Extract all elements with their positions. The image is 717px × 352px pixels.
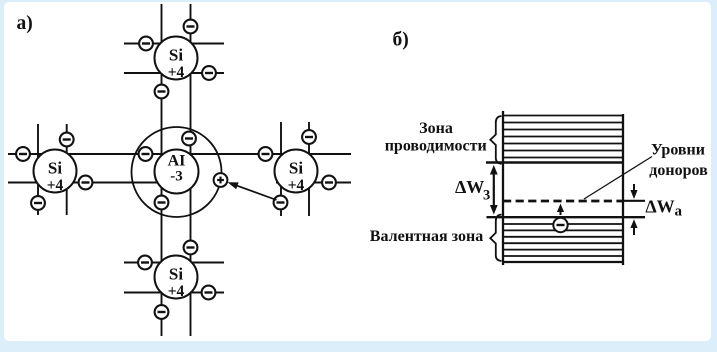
svg-text:3: 3 — [483, 188, 490, 204]
electron bottom Si right-arm — [202, 286, 216, 300]
atom Si left — [34, 150, 77, 194]
electron right Si left-arm — [259, 147, 273, 161]
svg-text:Si: Si — [169, 46, 183, 65]
wire vertical bond line left (through top Si, Al, bottom Si) — [161, 4, 163, 336]
wire horizontal bond line lower, left part (ends at the hole - broken bond) — [8, 182, 170, 184]
arrow from right Si bond electron to the hole — [228, 182, 277, 200]
svg-text:-3: -3 — [170, 169, 183, 185]
conduction band hatch lines — [503, 116, 623, 158]
svg-text:б): б) — [393, 30, 409, 51]
electron captured at donor level with arrow — [553, 204, 567, 233]
valence band top edge with side ticks — [487, 216, 646, 218]
delta Wa lower arrow pointing up — [630, 219, 637, 235]
wire top Si lower horizontal arm — [124, 72, 224, 74]
valence band curly brace — [490, 215, 501, 262]
svg-text:+4: +4 — [168, 64, 185, 81]
electron Al bottom — [155, 196, 169, 210]
wire vertical bond line right (through top Si, Al, bottom Si) — [190, 4, 192, 336]
svg-text:a): a) — [17, 13, 33, 34]
electron bottom Si left-arm — [138, 256, 152, 270]
delta Wa upper arrow pointing down — [630, 184, 637, 199]
svg-text:a: a — [675, 204, 683, 220]
atom Al center (acceptor) — [155, 150, 199, 194]
electron top Si bottom — [155, 85, 169, 99]
donor levels dashed line — [503, 200, 623, 203]
svg-text:Зона: Зона — [419, 120, 453, 137]
wire top Si upper horizontal arm — [124, 43, 224, 45]
svg-text:Валентная зона: Валентная зона — [370, 228, 483, 245]
svg-text:ΔW: ΔW — [645, 197, 674, 217]
electron Al left-arm — [139, 147, 153, 161]
atom Si bottom — [155, 256, 198, 300]
electron right Si top — [302, 130, 316, 144]
electron left Si right-arm — [79, 176, 93, 190]
conduction band curly brace — [490, 116, 501, 164]
valence band bottom edge — [503, 261, 623, 263]
svg-text:Уровни: Уровни — [651, 142, 705, 159]
hole (+) on Al outer orbit — [214, 173, 228, 187]
electron right Si bottom — [274, 196, 288, 210]
svg-text:Si: Si — [48, 159, 62, 178]
pointer line to donor levels label — [584, 157, 652, 200]
electron Al top — [182, 132, 196, 146]
electron top Si right-arm — [202, 66, 216, 80]
svg-text:+4: +4 — [288, 177, 305, 194]
atom Si top — [155, 37, 198, 81]
wire left Si right vertical arm — [66, 124, 68, 215]
svg-text:+4: +4 — [47, 177, 64, 194]
svg-text:доноров: доноров — [649, 162, 708, 179]
band diagram right vertical line — [622, 114, 624, 265]
wire bottom Si lower horizontal arm — [124, 292, 224, 294]
electron left Si left-arm — [16, 147, 30, 161]
band diagram left vertical line — [502, 111, 504, 265]
electron right Si right-arm — [322, 176, 336, 190]
electron top Si top — [184, 20, 198, 34]
svg-text:AI: AI — [168, 153, 186, 170]
conduction band bottom edge with left tick — [486, 161, 623, 163]
wire bottom Si upper horizontal arm — [124, 262, 224, 264]
band gap double arrow (delta W3) — [490, 165, 498, 215]
wire right Si left vertical arm — [280, 122, 282, 216]
electron top Si left-arm — [139, 37, 153, 51]
wire horizontal bond line lower, right part (from right Si outward) — [276, 182, 351, 184]
electron bottom Si top — [184, 241, 198, 255]
svg-text:Si: Si — [289, 159, 303, 178]
wire left Si left vertical arm — [37, 124, 39, 215]
electron left Si top — [60, 133, 74, 147]
delta Wa tick at donor level (right side) — [623, 200, 645, 202]
svg-text:Si: Si — [169, 265, 183, 284]
wire horizontal bond line upper (through left Si, Al, right Si) — [8, 153, 351, 155]
Al acceptor outer orbit circle — [132, 127, 222, 217]
svg-text:+4: +4 — [168, 283, 185, 300]
svg-text:ΔW: ΔW — [455, 177, 484, 197]
valence band hatch lines — [503, 224, 623, 256]
svg-text:проводимости: проводимости — [385, 138, 487, 155]
wire right Si right vertical arm — [308, 122, 310, 216]
electron bottom Si bottom — [155, 305, 169, 319]
atom Si right — [275, 150, 318, 194]
electron left Si bottom — [31, 196, 45, 210]
